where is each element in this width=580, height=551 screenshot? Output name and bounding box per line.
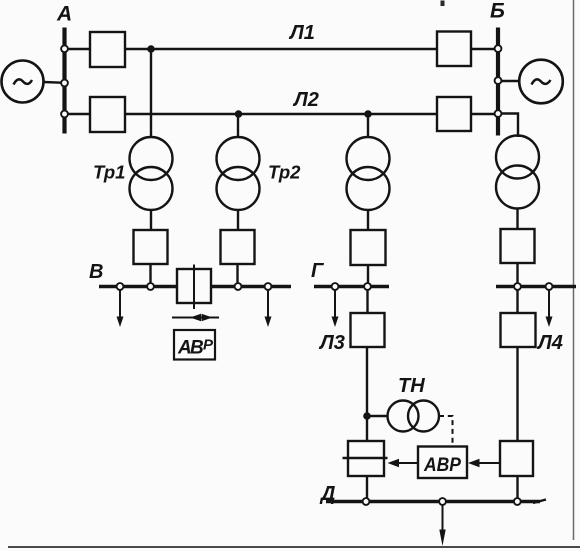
- svg-text:В: В: [190, 338, 204, 359]
- svg-text:АВР: АВР: [423, 455, 461, 476]
- svg-text:Л3: Л3: [318, 332, 345, 354]
- svg-text:ТН: ТН: [398, 375, 425, 397]
- svg-text:Л2: Л2: [292, 89, 319, 111]
- svg-text:Г: Г: [311, 260, 325, 282]
- svg-text:А: А: [56, 3, 72, 26]
- svg-text:Р: Р: [203, 337, 214, 354]
- svg-text:Тр1: Тр1: [93, 162, 125, 183]
- svg-text:Л4: Л4: [536, 332, 563, 354]
- svg-text:Д: Д: [319, 483, 335, 505]
- svg-text:В: В: [89, 261, 103, 283]
- svg-text:Тр2: Тр2: [268, 162, 301, 183]
- svg-text:Л1: Л1: [288, 22, 315, 44]
- svg-text:Б: Б: [490, 0, 505, 23]
